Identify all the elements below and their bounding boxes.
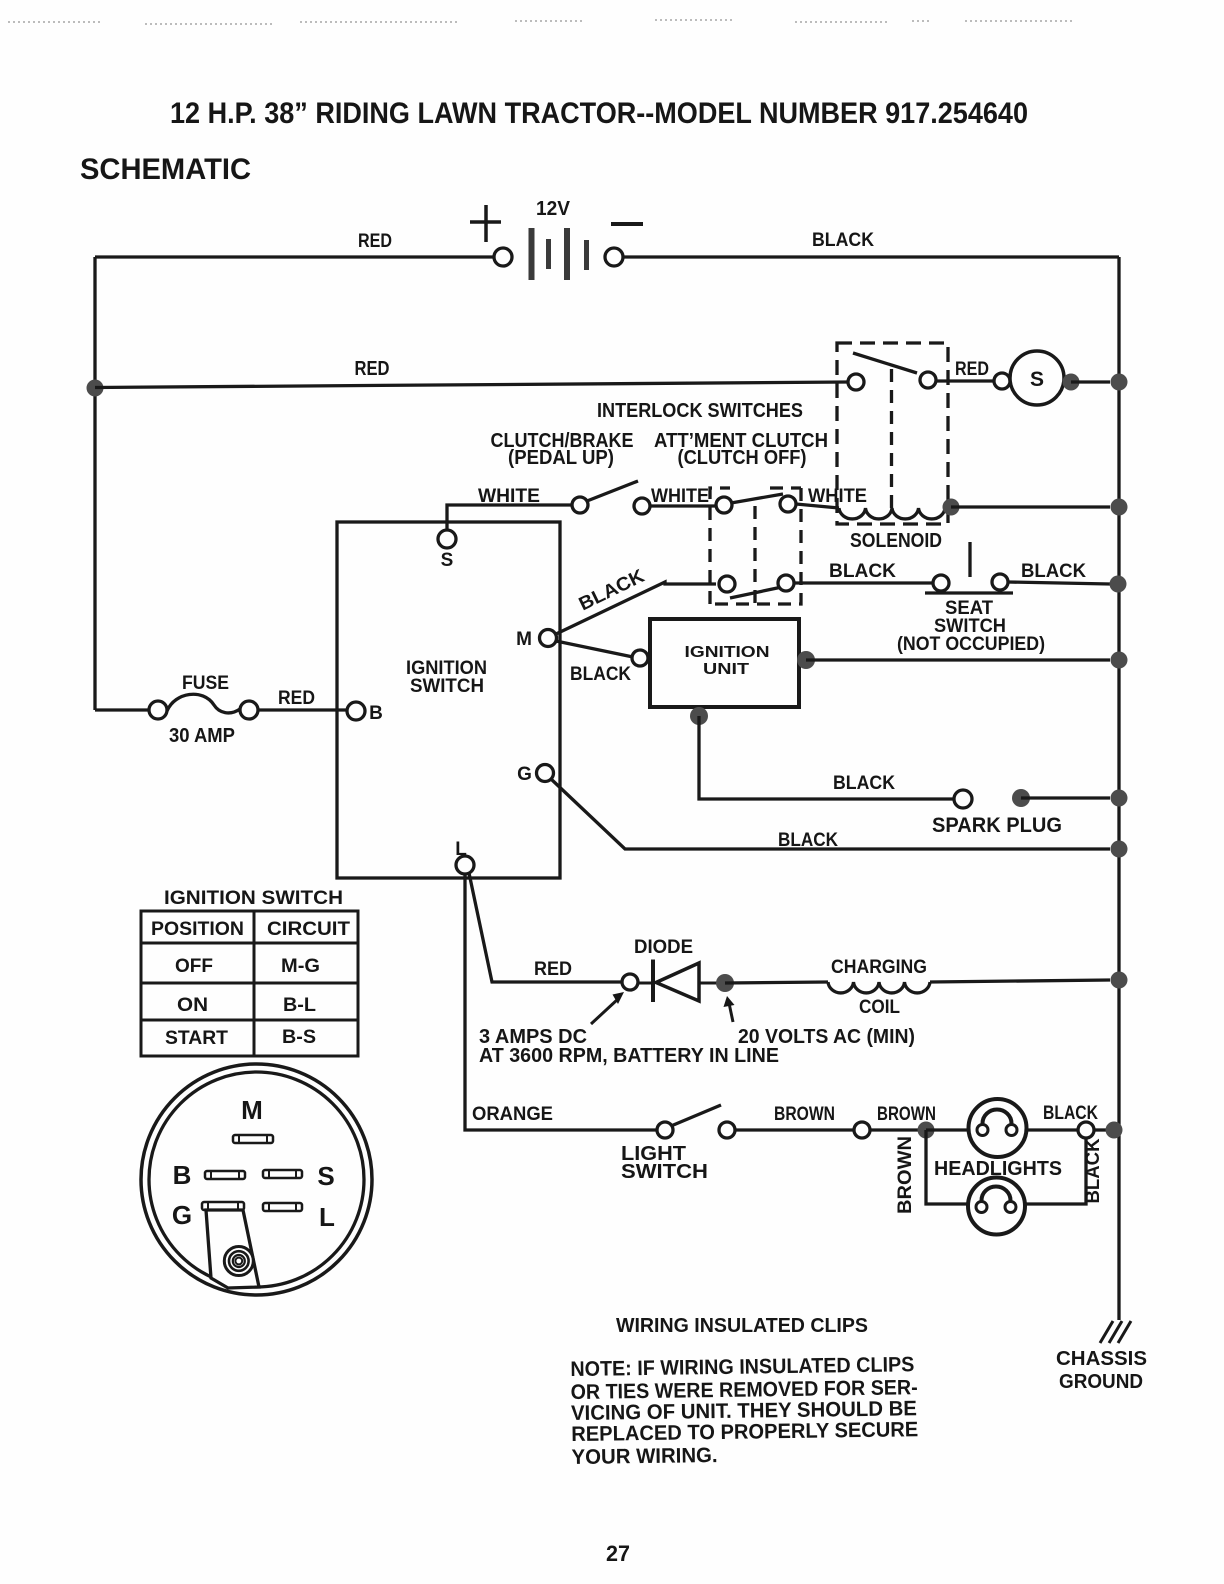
svg-text:RED: RED bbox=[955, 359, 989, 380]
annotation arrow to 20V point bbox=[729, 1003, 733, 1022]
svg-text:RED: RED bbox=[358, 231, 392, 252]
svg-text:27: 27 bbox=[606, 1541, 630, 1566]
svg-text:IGNITION: IGNITION bbox=[685, 644, 770, 661]
seat switch terminal right bbox=[992, 574, 1008, 590]
svg-text:BLACK: BLACK bbox=[1021, 561, 1086, 582]
svg-text:WHITE: WHITE bbox=[478, 486, 540, 507]
ignition unit bottom dot bbox=[690, 707, 708, 725]
wire L down to light switch bbox=[465, 874, 657, 1130]
clutch/brake switch terminal left bbox=[572, 497, 588, 513]
svg-text:B: B bbox=[173, 1160, 192, 1190]
ignition unit box U1 bbox=[650, 619, 799, 707]
connector circle brown bbox=[854, 1122, 870, 1138]
att'ment clutch black switch terminal right bbox=[778, 575, 794, 591]
svg-text:RED: RED bbox=[355, 358, 390, 380]
scan artifact dotted line bbox=[8, 20, 1075, 24]
svg-text:DIODE: DIODE bbox=[634, 937, 693, 958]
key connector inner circle bbox=[149, 1072, 364, 1287]
key connector pin slot G bbox=[202, 1202, 244, 1210]
svg-text:WIRING INSULATED CLIPS: WIRING INSULATED CLIPS bbox=[616, 1315, 868, 1337]
svg-text:B: B bbox=[369, 703, 383, 724]
fuse terminal right bbox=[240, 701, 258, 719]
svg-text:SWITCH: SWITCH bbox=[621, 1161, 708, 1183]
key ring hole bbox=[235, 1258, 242, 1265]
light switch terminal right bbox=[719, 1122, 735, 1138]
svg-text:SCHEMATIC: SCHEMATIC bbox=[80, 153, 251, 186]
key ring outer bbox=[229, 1251, 249, 1271]
wire solenoid to starter bbox=[936, 379, 994, 382]
svg-text:POSITION: POSITION bbox=[151, 919, 244, 940]
wire RED row to solenoid contact bbox=[95, 382, 848, 388]
junction dot right rail spark plug row bbox=[1111, 790, 1128, 807]
ignition switch box bbox=[337, 522, 560, 878]
svg-text:S: S bbox=[1030, 368, 1044, 391]
svg-text:ON: ON bbox=[177, 995, 208, 1016]
junction dot right rail headlight row bbox=[1106, 1122, 1123, 1139]
solenoid contact blade bbox=[853, 353, 917, 373]
wire ignition unit to spark plug bbox=[699, 716, 954, 799]
solenoid coil bbox=[839, 508, 945, 519]
fuse F1 bbox=[95, 708, 149, 711]
ignition switch terminal L bbox=[456, 856, 474, 874]
junction dot left rail bbox=[87, 380, 104, 397]
att'ment clutch black switch blade bbox=[730, 587, 782, 598]
svg-text:RED: RED bbox=[278, 688, 315, 709]
svg-text:RED: RED bbox=[534, 959, 572, 980]
seat switch bar bbox=[925, 591, 1013, 594]
wire ignition unit to right rail bbox=[806, 658, 1110, 661]
fuse terminal left bbox=[149, 701, 167, 719]
svg-text:G: G bbox=[517, 764, 532, 785]
svg-text:BLACK: BLACK bbox=[1083, 1138, 1104, 1203]
svg-text:SWITCH: SWITCH bbox=[410, 676, 484, 697]
clutch/brake switch terminal right bbox=[634, 498, 650, 514]
connector circle black bbox=[1078, 1122, 1094, 1138]
wire S terminal up to clutch/brake switch bbox=[447, 505, 572, 530]
svg-text:UNIT: UNIT bbox=[703, 661, 749, 678]
clutch/brake switch blade bbox=[587, 481, 638, 501]
svg-text:L: L bbox=[319, 1202, 335, 1232]
headlight top lamp bbox=[969, 1099, 1027, 1157]
wire black switch to seat switch bbox=[794, 581, 933, 584]
ignition switch table bbox=[141, 911, 358, 1056]
svg-text:G: G bbox=[172, 1200, 192, 1230]
battery plate short 1 bbox=[546, 239, 551, 269]
wire charging coil to right rail bbox=[930, 980, 1110, 982]
junction dot right rail seat row bbox=[1110, 576, 1127, 593]
svg-text:GROUND: GROUND bbox=[1059, 1371, 1143, 1393]
svg-text:AT 3600 RPM, BATTERY IN LINE: AT 3600 RPM, BATTERY IN LINE bbox=[479, 1045, 779, 1067]
junction dot right rail charging row bbox=[1111, 972, 1128, 989]
svg-text:BLACK: BLACK bbox=[778, 830, 838, 851]
key ring middle bbox=[233, 1255, 245, 1267]
battery plate short 2 bbox=[584, 240, 589, 270]
ignition unit output dot right bbox=[797, 651, 815, 669]
wire solenoid coil to right rail bbox=[951, 505, 1110, 508]
solenoid coil end dot bbox=[943, 499, 960, 516]
svg-text:CIRCUIT: CIRCUIT bbox=[267, 919, 350, 940]
annotation arrow to diode bbox=[591, 999, 618, 1024]
svg-text:BLACK: BLACK bbox=[833, 773, 895, 794]
wire left rail vertical bbox=[93, 257, 96, 710]
svg-text:M-G: M-G bbox=[281, 956, 320, 977]
starter output dot bbox=[1063, 374, 1080, 391]
att'ment clutch black switch terminal left bbox=[719, 576, 735, 592]
svg-text:(CLUTCH OFF): (CLUTCH OFF) bbox=[678, 447, 807, 469]
svg-text:S: S bbox=[441, 550, 454, 571]
att'ment clutch dashed box bbox=[710, 488, 801, 604]
svg-text:M: M bbox=[516, 629, 532, 650]
svg-text:12V: 12V bbox=[536, 198, 571, 220]
key connector pin slot B bbox=[205, 1171, 245, 1179]
wire black connector to right rail bbox=[1094, 1128, 1110, 1131]
wire right rail vertical bbox=[1117, 257, 1120, 1320]
wire L to diode RED bbox=[469, 873, 622, 982]
battery plus sign bbox=[470, 205, 501, 242]
wire battery negative BLACK to right rail bbox=[623, 255, 1119, 258]
junction dot right rail G row bbox=[1111, 841, 1128, 858]
starter terminal circle bbox=[994, 373, 1010, 389]
svg-text:REPLACED TO PROPERLY SECURE: REPLACED TO PROPERLY SECURE bbox=[571, 1418, 918, 1446]
svg-text:S: S bbox=[317, 1161, 334, 1191]
battery BT1 12V bbox=[470, 198, 643, 280]
svg-text:M: M bbox=[241, 1095, 263, 1125]
wire clutch/brake to att'ment clutch switch bbox=[650, 504, 716, 507]
svg-text:CHARGING: CHARGING bbox=[831, 957, 927, 978]
svg-text:YOUR WIRING.: YOUR WIRING. bbox=[571, 1444, 717, 1469]
svg-text:BLACK: BLACK bbox=[570, 664, 631, 685]
battery negative terminal circle bbox=[605, 248, 623, 266]
wire battery positive RED to left rail bbox=[95, 255, 494, 258]
seat switch plunger bbox=[968, 542, 971, 577]
svg-text:B-L: B-L bbox=[283, 995, 316, 1016]
ignition switch terminal B bbox=[347, 702, 365, 720]
solenoid relay dashed box bbox=[837, 343, 948, 524]
wire starter to right rail bbox=[1071, 380, 1110, 383]
battery minus sign bbox=[611, 222, 643, 226]
ignition switch terminal M bbox=[540, 630, 557, 647]
starter motor S bbox=[1010, 351, 1064, 405]
key ring boss bbox=[224, 1247, 253, 1276]
seat switch terminal left bbox=[933, 575, 949, 591]
solenoid contact terminal left bbox=[848, 374, 864, 390]
svg-text:OFF: OFF bbox=[175, 956, 213, 977]
wire diode to charging coil bbox=[725, 982, 828, 983]
spark plug terminal bbox=[954, 790, 972, 808]
att'ment clutch white switch blade bbox=[731, 494, 783, 503]
svg-text:START: START bbox=[165, 1028, 228, 1049]
ignition switch terminal S bbox=[438, 530, 456, 548]
svg-text:L: L bbox=[455, 839, 467, 860]
svg-text:BLACK: BLACK bbox=[1043, 1103, 1098, 1124]
wire M to ignition unit bbox=[556, 641, 633, 657]
svg-text:B-S: B-S bbox=[282, 1027, 316, 1048]
fuse element bbox=[167, 694, 240, 713]
wire fuse to B terminal bbox=[258, 708, 347, 711]
ignition unit input terminal bbox=[632, 650, 648, 666]
svg-text:ORANGE: ORANGE bbox=[472, 1104, 553, 1125]
diode cathode dot bbox=[716, 974, 734, 992]
svg-text:BROWN: BROWN bbox=[774, 1104, 835, 1125]
wire to top headlight bbox=[926, 1128, 968, 1131]
key connector pin slot S bbox=[263, 1170, 302, 1178]
svg-text:(PEDAL UP): (PEDAL UP) bbox=[508, 447, 614, 469]
diode D1 anode terminal bbox=[622, 974, 638, 990]
junction dot right rail ignition unit row bbox=[1111, 652, 1128, 669]
junction dot right rail starter row bbox=[1111, 374, 1128, 391]
svg-text:COIL: COIL bbox=[859, 997, 900, 1018]
svg-text:BLACK: BLACK bbox=[812, 230, 874, 251]
wire M to att'ment clutch black switch bbox=[556, 582, 716, 634]
light switch blade bbox=[671, 1105, 721, 1126]
svg-text:30 AMP: 30 AMP bbox=[169, 725, 235, 747]
headlight bottom lamp bbox=[968, 1178, 1025, 1235]
light switch terminal left bbox=[657, 1122, 673, 1138]
junction dot right rail solenoid row bbox=[1111, 499, 1128, 516]
svg-text:WHITE: WHITE bbox=[651, 486, 709, 507]
wire brown drop to bottom headlight bbox=[926, 1130, 970, 1204]
svg-text:BROWN: BROWN bbox=[895, 1136, 916, 1214]
chassis ground symbol bbox=[1100, 1321, 1131, 1343]
wire att'ment switch to solenoid coil bbox=[796, 504, 839, 508]
spark plug gap electrode dot bbox=[1012, 789, 1030, 807]
wire spark plug to right rail bbox=[1021, 796, 1110, 799]
svg-text:FUSE: FUSE bbox=[182, 673, 229, 694]
key connector outer circle bbox=[141, 1064, 372, 1295]
key connector pin slot M bbox=[233, 1135, 273, 1143]
wire light switch to connector bbox=[735, 1128, 854, 1131]
wire seat switch to right rail bbox=[1008, 582, 1110, 584]
wire top headlight to black connector bbox=[1026, 1128, 1078, 1131]
svg-text:INTERLOCK SWITCHES: INTERLOCK SWITCHES bbox=[597, 400, 803, 422]
svg-text:IGNITION SWITCH: IGNITION SWITCH bbox=[164, 888, 343, 909]
charging coil L1 bbox=[828, 982, 930, 993]
key connector pin slot L bbox=[263, 1203, 302, 1211]
battery positive terminal circle bbox=[494, 248, 512, 266]
svg-text:CHASSIS: CHASSIS bbox=[1056, 1348, 1147, 1370]
key wedge bbox=[206, 1210, 259, 1288]
note paragraph bbox=[570, 1353, 919, 1469]
battery plate long 1 bbox=[529, 228, 535, 280]
solenoid contact terminal right bbox=[920, 372, 936, 388]
att'ment clutch internal dashed divider bbox=[753, 506, 756, 604]
svg-text:WHITE: WHITE bbox=[808, 486, 867, 507]
svg-text:(NOT OCCUPIED): (NOT OCCUPIED) bbox=[897, 634, 1045, 655]
svg-text:SOLENOID: SOLENOID bbox=[850, 530, 942, 552]
svg-text:SPARK PLUG: SPARK PLUG bbox=[932, 814, 1062, 837]
ignition switch terminal G bbox=[537, 765, 554, 782]
wire connector to headlight junction bbox=[870, 1128, 926, 1131]
svg-text:BLACK: BLACK bbox=[829, 561, 896, 582]
svg-text:20 VOLTS AC (MIN): 20 VOLTS AC (MIN) bbox=[738, 1026, 915, 1048]
battery plate long 2 bbox=[564, 228, 570, 280]
diode D1 bbox=[638, 982, 720, 985]
wire bottom headlight to black drop bbox=[1024, 1138, 1086, 1204]
wire G to right rail BLACK bbox=[551, 779, 1110, 849]
att'ment clutch white switch terminal left bbox=[716, 497, 732, 513]
headlight junction dot bbox=[918, 1122, 935, 1139]
solenoid relay internal dashed divider bbox=[890, 369, 893, 508]
att'ment clutch white switch terminal right bbox=[780, 496, 796, 512]
svg-text:12 H.P. 38” RIDING LAWN TRACTO: 12 H.P. 38” RIDING LAWN TRACTOR--MODEL N… bbox=[170, 97, 1028, 130]
